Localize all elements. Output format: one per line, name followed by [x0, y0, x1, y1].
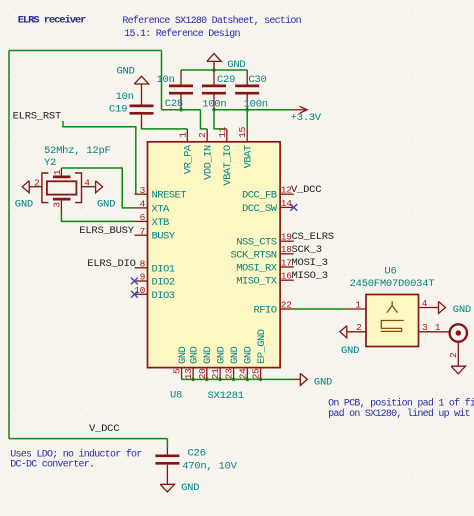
svg-text:GND: GND [117, 66, 135, 78]
op-amp U8 SX1281 body [148, 142, 281, 368]
svg-text:24: 24 [237, 368, 248, 379]
pin 21 GND (bottom) [210, 346, 227, 379]
junction bottom GND bus [191, 378, 195, 382]
svg-text:GND: GND [453, 304, 471, 316]
svg-text:20: 20 [197, 368, 208, 379]
svg-text:10n: 10n [157, 74, 175, 86]
junction bottom GND bus [218, 378, 222, 382]
svg-text:1: 1 [355, 299, 361, 310]
svg-text:V_DCC: V_DCC [89, 423, 119, 435]
svg-text:Reference SX1280 Datsheet, sec: Reference SX1280 Datsheet, section [122, 15, 301, 27]
svg-text:GND: GND [243, 346, 255, 364]
svg-text:10: 10 [134, 285, 145, 296]
svg-text:2: 2 [34, 177, 40, 188]
pin 17 MOSI_RX (right) [236, 257, 294, 274]
svg-text:DIO3: DIO3 [152, 290, 175, 302]
svg-text:SCK_3: SCK_3 [292, 244, 322, 256]
pin 12 DCC_FB (right) [242, 185, 294, 202]
svg-text:100n: 100n [244, 99, 268, 111]
svg-text:GND: GND [227, 59, 245, 71]
svg-text:SCK_RTSN: SCK_RTSN [230, 249, 276, 261]
ground left of crystal [22, 181, 29, 193]
svg-text:C29: C29 [217, 74, 235, 86]
svg-text:2: 2 [356, 322, 362, 333]
pin 3 NRESET (left) [135, 185, 187, 202]
svg-text:2: 2 [197, 132, 208, 138]
pin 4 XTA (left) [135, 199, 171, 216]
connector pin 2 lead [448, 342, 459, 366]
svg-text:RFIO: RFIO [253, 305, 276, 317]
svg-text:16: 16 [281, 271, 292, 282]
filter S glyph inside U6 [381, 321, 404, 332]
svg-text:C30: C30 [248, 74, 266, 86]
junction bottom GND bus [205, 378, 209, 382]
svg-text:470n, 10V: 470n, 10V [182, 460, 237, 472]
capacitor C30 [235, 70, 259, 110]
ground above C19 [134, 76, 148, 84]
svg-text:NSS_CTS: NSS_CTS [236, 237, 277, 249]
svg-text:U8: U8 [170, 390, 182, 402]
svg-text:V_DCC: V_DCC [291, 184, 321, 196]
svg-text:XTA: XTA [152, 203, 171, 215]
svg-text:ELRS_BUSY: ELRS_BUSY [79, 225, 134, 237]
svg-text:BUSY: BUSY [152, 231, 176, 243]
wire V_DCC left side vertical [8, 51, 10, 439]
no-connect pin 10 [131, 291, 138, 298]
svg-text:ELRS_RST: ELRS_RST [13, 110, 61, 122]
svg-text:2: 2 [448, 352, 459, 358]
pin 20 GND (bottom) [197, 346, 214, 379]
svg-text:19: 19 [281, 232, 292, 243]
svg-text:22: 22 [281, 299, 292, 310]
svg-text:18: 18 [281, 244, 292, 255]
svg-text:4: 4 [422, 298, 428, 309]
pin 10 DIO3 (left) [134, 285, 175, 302]
wire crystal pin 3 to XTB [61, 213, 134, 222]
coax connector [450, 324, 467, 341]
pin 2 VDD_IN (top) [197, 129, 214, 180]
svg-text:2450FM07D0034T: 2450FM07D0034T [350, 278, 435, 290]
svg-text:25: 25 [251, 368, 262, 379]
svg-text:GND: GND [202, 346, 214, 364]
wire top GND bus over capacitors [181, 69, 247, 71]
svg-text:VDD_IN: VDD_IN [203, 145, 215, 180]
junction C28 / V_DCC rail [179, 108, 183, 112]
svg-text:VR_PA: VR_PA [183, 144, 195, 174]
ground right of bottom GND bus [294, 373, 307, 385]
junction bottom GND bus [246, 378, 250, 382]
svg-text:DIO1: DIO1 [152, 263, 175, 275]
wire C19 to pin 1 VR_PA [142, 127, 188, 129]
svg-text:VBAT: VBAT [243, 145, 255, 168]
svg-text:1: 1 [52, 169, 63, 175]
svg-text:3: 3 [52, 202, 63, 208]
svg-text:1: 1 [177, 132, 188, 138]
pin 24 GND (bottom) [237, 346, 254, 379]
pin 14 DCC_SW (right) [242, 198, 294, 215]
wire drop to pin 15 VBAT [246, 110, 248, 129]
no-connect pin 14 [290, 204, 297, 211]
wire jog to pin 2 VDD_IN [201, 110, 208, 129]
svg-text:GND: GND [216, 346, 228, 364]
filter U6 body [366, 295, 419, 347]
svg-text:GND: GND [15, 198, 33, 210]
svg-text:SX1281: SX1281 [208, 390, 244, 402]
svg-text:C26: C26 [188, 447, 206, 459]
svg-text:GND: GND [314, 377, 332, 389]
svg-text:GND: GND [177, 346, 189, 364]
svg-text:GND: GND [189, 346, 201, 364]
svg-text:52Mhz, 12pF: 52Mhz, 12pF [44, 145, 111, 157]
svg-text:3: 3 [140, 185, 146, 196]
junction GND bus / C29 top [212, 68, 216, 72]
junction C29 / +3.3V rail [212, 108, 216, 112]
wire V_DCC bottom horizontal [9, 438, 167, 440]
grid dots [14, 9, 412, 476]
pin 18 SCK_RTSN (right) [230, 244, 293, 261]
svg-text:EP_GND: EP_GND [256, 329, 268, 364]
svg-text:4: 4 [84, 177, 90, 188]
U6 pin 2 lead [347, 322, 366, 333]
pin 25 EP_GND (bottom) [251, 329, 268, 379]
ground below connector [451, 366, 465, 374]
U6 pin 1 lead [346, 299, 366, 310]
svg-text:DCC_FB: DCC_FB [242, 190, 277, 202]
svg-text:13: 13 [183, 368, 194, 379]
svg-text:23: 23 [224, 368, 235, 379]
svg-text:MOSI_3: MOSI_3 [292, 257, 328, 269]
svg-text:15: 15 [237, 126, 248, 137]
ground at U6 pin 2 [340, 326, 347, 338]
wire ELRS_RST to pin 3 NRESET [63, 121, 136, 194]
junction bottom GND bus [259, 378, 263, 382]
svg-text:11: 11 [217, 126, 228, 137]
U6 pin 3 lead [419, 322, 450, 333]
pin 19 NSS_CTS (right) [236, 232, 294, 249]
capacitor C28 [169, 70, 193, 110]
svg-text:pad on SX1280, lined up wit: pad on SX1280, lined up wit [328, 408, 470, 420]
pin 16 MISO_TX (right) [236, 271, 294, 288]
capacitor C29 [202, 70, 226, 110]
svg-text:8: 8 [140, 259, 146, 270]
wire V_DCC drop to C26 [166, 439, 168, 448]
wire V_DCC left loop top [9, 50, 162, 52]
ground at U6 pin 4 [439, 302, 446, 314]
svg-text:DIO2: DIO2 [152, 277, 175, 289]
wire jog to pin 11 VBAT_IO [214, 110, 227, 129]
svg-text:VBAT_IO: VBAT_IO [222, 145, 234, 186]
wire V_DCC rail segment [162, 109, 201, 111]
svg-text:MISO_TX: MISO_TX [236, 276, 278, 288]
no-connect pin 9 [131, 278, 138, 285]
pin 22 RFIO (right) [253, 299, 293, 316]
ground right of crystal [96, 181, 103, 193]
wire bottom GND bus [182, 378, 295, 380]
pin 8 DIO1 (left) [135, 259, 175, 276]
svg-text:15.1: Reference Design: 15.1: Reference Design [124, 28, 240, 40]
svg-text:DC-DC converter.: DC-DC converter. [10, 459, 94, 470]
svg-text:GND: GND [97, 198, 115, 210]
svg-text:GND: GND [229, 346, 241, 364]
pin 1 VR_PA (top) [177, 129, 194, 174]
pin 9 DIO2 (left) [135, 272, 175, 289]
pin 15 VBAT (top) [237, 126, 254, 168]
svg-text:GND: GND [181, 482, 199, 494]
svg-text:17: 17 [281, 257, 292, 268]
svg-text:U6: U6 [384, 265, 396, 277]
svg-text:MOSI_RX: MOSI_RX [236, 263, 278, 275]
svg-text:XTB: XTB [152, 217, 170, 229]
wire crystal pin 1 to XTA [61, 168, 134, 208]
junction C30 / +3.3V rail [245, 108, 249, 112]
svg-text:1: 1 [435, 322, 441, 333]
pin 11 VBAT_IO (top) [217, 126, 234, 185]
svg-text:100n: 100n [202, 99, 226, 111]
svg-text:ELRS_DIO: ELRS_DIO [87, 258, 135, 270]
antenna glyph inside U6 [387, 301, 398, 312]
svg-text:CS_ELRS: CS_ELRS [292, 231, 334, 243]
svg-text:3: 3 [422, 322, 428, 333]
svg-text:C19: C19 [109, 103, 127, 115]
svg-text:10n: 10n [116, 91, 134, 103]
svg-text:5: 5 [172, 368, 183, 374]
pin 7 BUSY (left) [135, 226, 176, 243]
pin 6 XTB (left) [135, 212, 170, 229]
wire V_DCC drop to rail [161, 51, 163, 110]
svg-text:C28: C28 [165, 98, 183, 110]
svg-text:Y2: Y2 [44, 157, 56, 169]
svg-text:7: 7 [140, 226, 145, 237]
svg-text:14: 14 [281, 198, 292, 209]
junction bottom GND bus [232, 378, 236, 382]
svg-text:6: 6 [140, 212, 146, 223]
svg-text:NRESET: NRESET [152, 190, 187, 202]
svg-text:9: 9 [140, 272, 146, 283]
power +3.3V arrow [291, 106, 307, 113]
capacitor C19 [130, 84, 154, 127]
wire RFIO to U6 pin 1 [294, 308, 346, 310]
svg-text:+3.3V: +3.3V [291, 112, 322, 124]
wire +3.3V rail [214, 109, 291, 111]
ground above C29 [207, 54, 221, 70]
pin 23 GND (bottom) [224, 346, 241, 379]
pin 13 GND (bottom) [183, 346, 200, 379]
svg-text:4: 4 [140, 199, 146, 210]
crystal Y2 [29, 168, 95, 213]
capacitor C26 [155, 448, 179, 484]
svg-text:ELRS receiver: ELRS receiver [18, 15, 86, 27]
svg-text:MISO_3: MISO_3 [292, 270, 328, 282]
svg-text:21: 21 [210, 368, 221, 379]
svg-text:DCC_SW: DCC_SW [242, 203, 278, 215]
ground below C26 [160, 484, 174, 492]
pin 5 GND (bottom) [172, 346, 189, 379]
U6 pin 4 lead [419, 298, 439, 309]
svg-text:On PCB, position pad 1 of fir: On PCB, position pad 1 of fir [328, 398, 474, 410]
svg-text:GND: GND [341, 345, 359, 357]
